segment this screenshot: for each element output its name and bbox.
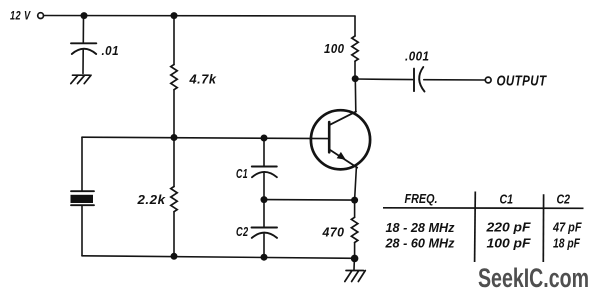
wire C1 top lead: [263, 138, 265, 166]
capacitor C1 top plate: [252, 166, 277, 168]
svg-text:100 pF: 100 pF: [487, 236, 532, 251]
crystal Y1 top plate: [71, 190, 94, 192]
svg-text:100: 100: [324, 42, 345, 56]
svg-text:SeekIC.com: SeekIC.com: [478, 263, 589, 293]
transistor Q1 base bar: [328, 122, 331, 152]
wire 2.2k top lead: [173, 138, 175, 187]
svg-text:OUTPUT: OUTPUT: [497, 73, 548, 89]
node top rail / .01 junction: [81, 12, 88, 19]
crystal Y1 body: [71, 195, 94, 203]
node mid rail / C1 junction: [261, 135, 268, 142]
wire emitter drop: [355, 167, 357, 200]
transistor Q1 emitter stroke: [330, 150, 357, 168]
svg-text:.01: .01: [102, 44, 120, 58]
wire to ground G2: [353, 258, 355, 269]
node bottom rail / 2.2k junction: [171, 253, 178, 260]
svg-text:C1: C1: [500, 192, 514, 207]
terminal OUTPUT circle: [485, 77, 491, 83]
wire cap to output terminal: [424, 79, 485, 81]
svg-text:FREQ.: FREQ.: [405, 192, 438, 206]
wire output coupling: [355, 78, 413, 81]
ground G1: [71, 75, 91, 83]
capacitor C2 top plate: [252, 227, 278, 229]
ground G2: [345, 271, 366, 282]
resistor R2.2k body: [171, 187, 177, 212]
capacitor .01 curved plate: [72, 49, 96, 54]
wire bottom rail: [82, 256, 355, 258]
table column rule 2: [542, 194, 544, 262]
node emitter row / C1 junction: [261, 196, 268, 203]
svg-text:.001: .001: [405, 50, 430, 64]
capacitor C2 curved plate: [252, 233, 277, 238]
node bottom rail / C2 junction: [261, 254, 268, 261]
svg-text:220 pF: 220 pF: [485, 220, 531, 235]
node collector / output junction: [352, 75, 359, 82]
wire top rail: [44, 15, 356, 18]
wire right drop to R100: [354, 16, 356, 36]
terminal 12V circle: [38, 13, 44, 19]
svg-text:18 - 28 MHz: 18 - 28 MHz: [386, 220, 455, 235]
wire 470 top lead: [354, 200, 356, 217]
svg-text:470: 470: [322, 226, 345, 240]
wire mid rail: [82, 137, 329, 138]
node emitter row / 470 junction: [351, 197, 358, 204]
svg-text:4.7k: 4.7k: [188, 72, 217, 86]
svg-text:12 V: 12 V: [10, 8, 31, 22]
svg-text:C2: C2: [236, 225, 249, 239]
wire C1 to emitter row: [263, 173, 265, 200]
svg-text:47 pF: 47 pF: [552, 220, 582, 235]
svg-text:18 pF: 18 pF: [553, 236, 581, 251]
transistor Q1 collector stroke: [330, 112, 356, 125]
node mid rail / 4.7k junction: [171, 134, 178, 141]
wire C2 bottom lead: [263, 234, 265, 257]
wire collector node to transistor: [354, 79, 357, 112]
wire 4.7k top lead: [173, 16, 175, 65]
resistor R4.7k body: [171, 65, 177, 90]
node bottom rail / ground junction: [351, 255, 359, 263]
wire 2.2k bottom lead: [173, 212, 175, 257]
capacitor .001 curved plate: [419, 67, 424, 92]
resistor R100 body: [352, 36, 358, 61]
wire left branch upper: [81, 137, 83, 191]
wire .01 branch: [82, 16, 84, 44]
wire C2 top lead: [263, 200, 265, 228]
transistor Q1 emitter arrow: [337, 152, 346, 160]
crystal Y1 bottom plate: [71, 204, 94, 206]
svg-text:C1: C1: [236, 167, 248, 181]
wire 470 bottom lead: [354, 243, 356, 259]
capacitor .001 left plate: [413, 69, 415, 92]
capacitor .01 top plate: [71, 42, 96, 44]
wire 4.7k bottom lead: [173, 90, 175, 138]
transistor Q1 circle: [311, 110, 370, 169]
resistor R470 body: [351, 217, 357, 242]
wire .01 to ground: [82, 50, 84, 74]
node top rail / 4.7k junction: [171, 12, 178, 19]
capacitor C1 curved plate: [252, 172, 277, 177]
wire R100 to collector node: [354, 61, 356, 78]
svg-text:C2: C2: [557, 192, 571, 207]
svg-text:28 - 60 MHz: 28 - 60 MHz: [385, 236, 455, 251]
svg-text:2.2k: 2.2k: [136, 193, 166, 207]
wire left branch lower: [81, 205, 83, 256]
table header rule: [383, 207, 584, 210]
wire emitter row: [264, 199, 355, 202]
table column rule 1: [474, 192, 477, 263]
